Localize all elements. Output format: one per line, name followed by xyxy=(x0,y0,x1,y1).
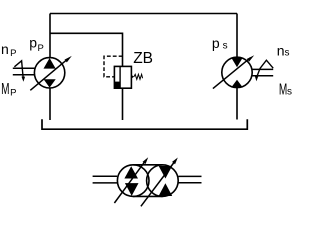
svg-text:P: P xyxy=(38,43,44,54)
wire pump to top bus xyxy=(49,14,51,58)
rotation arrow on pump shaft xyxy=(14,61,25,82)
transmission pump triangles xyxy=(124,166,138,196)
svg-text:P: P xyxy=(10,88,16,99)
svg-text:P: P xyxy=(10,48,16,59)
transmission motor triangles xyxy=(159,166,173,196)
label Mp xyxy=(1,80,16,99)
svg-text:ZB: ZB xyxy=(133,50,153,67)
svg-text:n: n xyxy=(1,41,9,57)
transmission bottom tangent line xyxy=(133,195,162,197)
svg-text:M: M xyxy=(1,80,9,98)
transmission top tangent line xyxy=(133,164,162,166)
pump P1 (variable displacement, left) xyxy=(34,58,64,88)
transmission input shaft xyxy=(93,176,118,183)
transmission unit: pump circle xyxy=(117,165,178,197)
variable arrow of motor M1 xyxy=(213,55,254,88)
transmission unit: motor circle xyxy=(147,165,179,197)
transmission pump variable arrow xyxy=(114,157,148,203)
transmission output shaft xyxy=(178,176,201,182)
wire top bus xyxy=(50,13,237,15)
wire valve bottom xyxy=(122,88,124,120)
wire motor bottom xyxy=(236,88,238,120)
wire branch to valve ZB xyxy=(50,33,123,66)
variable arrow of pump P1 xyxy=(30,56,72,90)
label np xyxy=(1,41,16,59)
shaft of motor M1 xyxy=(252,69,273,75)
svg-text:p: p xyxy=(29,35,37,51)
svg-text:s: s xyxy=(223,41,228,52)
wire motor to top bus xyxy=(236,14,238,58)
bracket bottom frame xyxy=(42,119,247,129)
shaft of pump P1 xyxy=(13,68,35,75)
spring of valve ZB xyxy=(132,74,143,79)
svg-text:s: s xyxy=(285,48,290,59)
label ps xyxy=(212,35,228,52)
wire pump bottom xyxy=(49,88,51,120)
svg-text:p: p xyxy=(212,35,220,51)
motor M1 (variable displacement, right) xyxy=(222,57,252,87)
valve ZB body xyxy=(114,66,131,88)
transmission motor variable arrow xyxy=(141,158,178,207)
svg-text:s: s xyxy=(287,87,292,98)
label Ms xyxy=(279,80,292,98)
label pp xyxy=(29,35,44,54)
label ns xyxy=(277,43,290,59)
pilot line (dashed) of valve ZB xyxy=(104,56,123,77)
rotation arrow on motor shaft xyxy=(255,60,273,81)
svg-text:n: n xyxy=(277,43,285,59)
